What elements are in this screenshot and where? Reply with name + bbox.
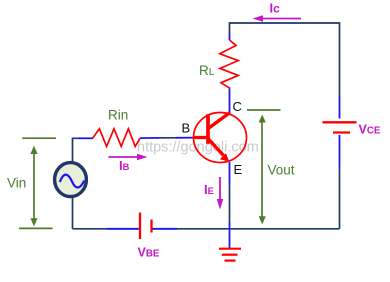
transistor Q1 base lead (red): [195, 136, 209, 139]
wire: ground stub (blue): [229, 222, 231, 249]
wire: Rin left lead (blue): [78, 137, 93, 139]
wire: right rail lower (navy): [339, 167, 341, 229]
svg-text:B: B: [182, 121, 191, 136]
wire: RL top lead (blue): [229, 34, 231, 41]
wire: VBE battery leads (blue): [107, 228, 177, 230]
resistor Rin: [93, 129, 140, 147]
current arrow IE: [219, 177, 221, 204]
wire: collector lead (blue): [229, 88, 231, 113]
transistor Q1 emitter stroke with arrow: [208, 138, 224, 156]
svg-text:Vin: Vin: [7, 176, 26, 191]
transistor Q1 base bar: [206, 114, 210, 144]
svg-text:Vout: Vout: [268, 163, 295, 178]
svg-text:IB: IB: [119, 158, 130, 173]
svg-text:VCE: VCE: [359, 123, 381, 137]
Vin measurement bottom line: [19, 227, 53, 229]
battery VBE plates: [139, 213, 141, 240]
svg-text:RL: RL: [199, 63, 215, 78]
wire: top rail and right rail upper (navy): [230, 23, 340, 96]
battery VCE plates: [323, 121, 357, 123]
Vin double arrow: [33, 152, 35, 220]
transistor Q1 collector stroke: [208, 113, 231, 130]
svg-text:C: C: [233, 99, 242, 114]
Vout double arrow: [261, 121, 263, 218]
Vout reference top line: [247, 109, 281, 111]
wire: base wire navy middle segment: [159, 137, 176, 139]
current arrow IB: [109, 156, 142, 158]
wire: bottom rail left of VBE (navy): [73, 228, 139, 230]
current arrow Ic: [258, 18, 301, 20]
svg-text:IE: IE: [204, 182, 214, 197]
wire: bottom rail right of VBE (navy): [153, 228, 340, 230]
Vin measurement top line: [22, 137, 56, 139]
svg-text:E: E: [234, 162, 243, 177]
ground: [219, 248, 241, 250]
svg-text:Rin: Rin: [108, 108, 128, 123]
wire: base lead blue segments: [140, 137, 196, 140]
wire: source top lead and corner to Rin (navy): [73, 138, 79, 163]
resistor RL: [220, 40, 238, 88]
svg-text:VBE: VBE: [138, 246, 160, 260]
AC source V1: [55, 163, 87, 197]
wire: VCE battery leads (blue): [339, 96, 341, 167]
wire: source bottom lead (navy): [72, 198, 74, 229]
wire: emitter lead (blue): [229, 162, 231, 183]
transistor Q1 circle: [194, 113, 247, 163]
wire: emitter to bottom rail (navy): [229, 183, 231, 222]
svg-text:Ic: Ic: [270, 1, 281, 16]
